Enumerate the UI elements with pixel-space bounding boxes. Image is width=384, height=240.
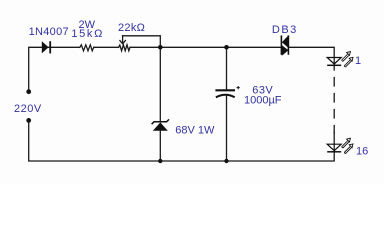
wire: left rail upper + top-left segment bbox=[29, 47, 42, 91]
dashed wire: LEDs 2..15 omitted bbox=[333, 78, 335, 134]
LED1 emission arrow a bbox=[342, 52, 351, 62]
wire: junction A to junction B bbox=[160, 46, 226, 48]
wire: LED16 to bottom right corner bbox=[29, 120, 335, 161]
potentiometer wiper arrow shaft bbox=[122, 36, 124, 43]
junction C dot (zener node, bottom) bbox=[158, 159, 162, 163]
wire: junction B to diac bbox=[227, 46, 282, 48]
LED16 center line bbox=[333, 144, 335, 152]
diac DB3 right bar bbox=[287, 35, 289, 54]
wire: capacitor branch upper bbox=[226, 47, 228, 89]
wire: wiper loop to junction A bbox=[123, 36, 161, 48]
capacitor top plate bbox=[215, 89, 235, 91]
LED16 cathode bar bbox=[327, 151, 341, 153]
wire: capacitor branch lower bbox=[226, 96, 228, 161]
wire: resistor to potentiometer bbox=[94, 46, 119, 48]
wire: zener branch upper bbox=[159, 47, 161, 122]
svg-text:22kΩ: 22kΩ bbox=[118, 22, 145, 34]
svg-text:1000µF: 1000µF bbox=[244, 94, 282, 106]
wire: diac to right corner, down to LED1 bbox=[288, 47, 334, 57]
potentiometer wiper arrowhead bbox=[120, 41, 126, 44]
capacitor plus sign bbox=[237, 86, 240, 89]
LED1 emission arrow b bbox=[344, 57, 353, 67]
terminal dot 220V upper bbox=[26, 89, 31, 94]
wire: dashed section to LED16 bbox=[333, 133, 335, 145]
diode 1N4007 cathode bar bbox=[49, 41, 51, 53]
wire: LED1 to dashed section bbox=[333, 65, 335, 70]
wire: zener branch lower bbox=[159, 131, 161, 161]
LED1 cathode bar bbox=[327, 64, 341, 66]
diac DB3 upper triangle (points left) bbox=[282, 35, 289, 48]
diac DB3 lower triangle (points right) bbox=[282, 45, 289, 56]
svg-text:1N4007: 1N4007 bbox=[29, 26, 69, 38]
LED16 triangle (points down) bbox=[327, 144, 341, 151]
LED1 triangle (points down) bbox=[327, 58, 341, 65]
LED16 emission arrow b bbox=[344, 144, 353, 154]
diode 1N4007 triangle bbox=[42, 41, 49, 53]
svg-text:220V: 220V bbox=[14, 103, 42, 115]
LED16 emission arrow a bbox=[342, 138, 351, 148]
svg-text:16: 16 bbox=[356, 146, 368, 158]
svg-text:15kΩ: 15kΩ bbox=[71, 28, 104, 40]
junction B dot (capacitor node, top) bbox=[224, 45, 229, 50]
junction A dot (pot/zener node, top) bbox=[158, 45, 163, 50]
svg-text:1: 1 bbox=[355, 55, 361, 67]
zener diode 68V 1W cathode bar with hooks bbox=[152, 119, 169, 124]
terminal dot 220V lower bbox=[26, 118, 31, 123]
zener diode 68V 1W triangle (points up) bbox=[153, 122, 168, 130]
capacitor bottom curved plate bbox=[216, 95, 235, 98]
wire: potentiometer to junction A bbox=[130, 46, 160, 48]
svg-text:68V 1W: 68V 1W bbox=[175, 124, 215, 136]
wire: diode cathode to resistor bbox=[49, 46, 80, 48]
svg-text:DB3: DB3 bbox=[272, 24, 298, 36]
LED1 center line bbox=[333, 58, 335, 66]
resistor 15kOhm 2W zigzag bbox=[80, 45, 94, 51]
diac DB3 left bar bbox=[280, 35, 282, 54]
junction D dot (capacitor node, bottom) bbox=[224, 159, 228, 163]
potentiometer 22kOhm zigzag bbox=[119, 45, 131, 51]
